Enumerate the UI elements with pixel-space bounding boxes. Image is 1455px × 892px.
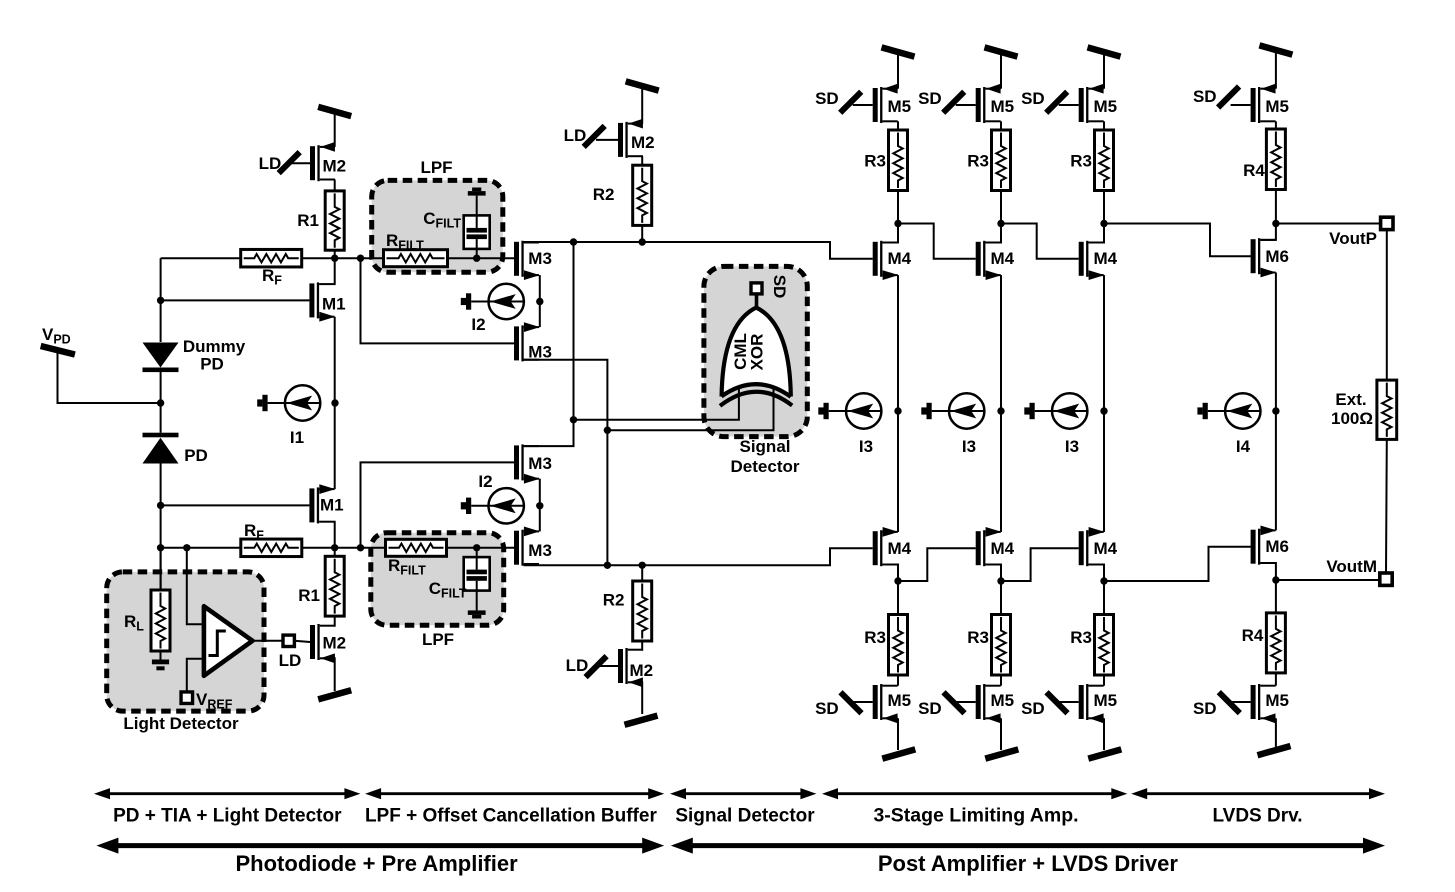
transistor M2 (top middle): [618, 119, 643, 158]
supply stub (bottom LPF): [468, 610, 486, 618]
transistor M5 top (stage 1): [873, 84, 898, 123]
resistor Ext 100 ohm: [1377, 380, 1397, 439]
wire ext load top: [1386, 230, 1388, 381]
wire SD to M5b gate (stage 1): [854, 701, 873, 703]
svg-text:LD: LD: [279, 651, 302, 670]
terminal LD square: [283, 635, 294, 646]
wire LD to M2m gate: [596, 139, 618, 141]
node B R1b junction: [331, 544, 338, 551]
current source I3 (stage 1): [818, 393, 882, 428]
node top bus X junction: [570, 238, 577, 245]
terminal V_REF square: [181, 692, 193, 704]
svg-text:M3: M3: [528, 343, 552, 362]
supply rail top (stage 1): [882, 47, 915, 56]
current source I2 (bottom): [461, 488, 525, 523]
annotation arrow PD+TIA: [94, 788, 360, 799]
wire node B to M3 upper gate: [361, 462, 515, 547]
transistor M5 top (LVDS): [1251, 84, 1276, 123]
wire RF bottom right: [302, 547, 335, 549]
node C_FILT top junction: [473, 255, 480, 262]
wire LD to M2 gate: [291, 162, 310, 164]
node output bottom (stage 3): [1100, 577, 1107, 584]
wire C_FILT to node: [476, 249, 478, 258]
terminal SD slash top (LVDS): [1218, 87, 1239, 108]
svg-text:SD: SD: [815, 699, 839, 718]
svg-text:M5: M5: [991, 691, 1015, 710]
wire left input bus: [160, 258, 162, 342]
supply rail (bottom middle): [625, 716, 658, 725]
node bus-M1b-gate junction: [157, 502, 164, 509]
current source I2 (top): [461, 284, 525, 319]
supply rail top (stage 2): [985, 47, 1018, 56]
capacitor C_FILT (top): [464, 215, 490, 249]
Light Detector block: [107, 572, 264, 711]
wire R2 to top bus: [641, 225, 643, 242]
node bus-RFb junction: [157, 544, 164, 551]
transistor M3 (bottom pair lower): [514, 527, 540, 566]
supply rail bottom (stage 2): [985, 749, 1018, 758]
wire node to M4 drain (stage 2): [985, 224, 1001, 243]
node I3 junction (stage 2): [997, 407, 1004, 414]
wire node to R4b: [1275, 580, 1277, 613]
svg-text:M2: M2: [323, 634, 347, 653]
transistor M5 bottom (stage 1): [873, 684, 898, 723]
wire R3 to node (stage 2): [1000, 191, 1002, 224]
svg-text:3-Stage Limiting Amp.: 3-Stage Limiting Amp.: [873, 805, 1078, 827]
svg-text:R2: R2: [603, 591, 625, 610]
wire R1b to M2b drain: [333, 616, 335, 626]
svg-text:PD: PD: [184, 446, 208, 465]
svg-text:LVDS Drv.: LVDS Drv.: [1212, 806, 1302, 827]
wire M6b drain to node VoutM: [1260, 563, 1276, 580]
wire R3 to node (stage 1): [897, 191, 899, 224]
wire RF top right: [302, 257, 335, 259]
node V_PD junction: [157, 399, 164, 406]
transistor M2 (top left): [310, 142, 335, 181]
wire M4b drain to node (stage 2): [985, 565, 1001, 582]
wire buffer out- to XOR right input: [607, 387, 773, 430]
terminal SD slash bottom (stage 2): [944, 692, 965, 713]
svg-text:M4: M4: [888, 539, 912, 558]
wire M2 drain to R1: [334, 180, 336, 191]
wire R4 to node VoutP: [1275, 190, 1277, 224]
transistor M4 top (stage 1): [873, 241, 899, 280]
svg-text:I4: I4: [1236, 437, 1251, 456]
node XOR left junction: [570, 416, 577, 423]
wire M5 to R3 (stage 1): [897, 121, 899, 130]
wire LD to M2b gate: [294, 641, 310, 642]
transistor M4 bottom (stage 1): [873, 527, 899, 566]
current source I1: [257, 385, 321, 420]
capacitor C_FILT (bottom): [464, 557, 490, 591]
terminal V_PD: [41, 346, 75, 355]
svg-text:LD: LD: [564, 126, 587, 145]
resistor R2 (bottom): [633, 581, 652, 641]
op-amp comparator (light detector): [204, 606, 253, 676]
wire M5b source to rail (stage 2): [1000, 718, 1002, 750]
terminal SD slash bottom (stage 3): [1047, 692, 1068, 713]
transistor M6 (bottom): [1251, 526, 1277, 565]
resistor R3 bottom (stage 1): [889, 615, 908, 676]
svg-text:PD: PD: [200, 355, 224, 374]
svg-text:SD: SD: [1021, 699, 1045, 718]
supply rail bottom (stage 1): [882, 749, 915, 758]
svg-text:R3: R3: [864, 628, 886, 647]
wire stage2 to stage3 gate (top): [1001, 224, 1079, 259]
wire M1 top gate: [161, 299, 310, 301]
node VoutP junction: [1272, 220, 1279, 227]
wire comparator output to LD: [253, 640, 284, 642]
node bus-RF-top junction: [157, 297, 164, 304]
node C_FILT bottom junction: [473, 544, 480, 551]
svg-text:M5: M5: [888, 691, 912, 710]
svg-text:R3: R3: [967, 152, 989, 171]
wire top bus to first M4 gate: [524, 242, 873, 259]
diode Dummy PD: [143, 343, 179, 373]
supply stub (top LPF): [468, 188, 486, 196]
wire RF top left: [161, 257, 241, 259]
wire node B to R1b: [334, 548, 336, 557]
wire R1 to node A: [334, 250, 336, 258]
transistor M4 bottom (stage 3): [1079, 527, 1105, 566]
wire node to R3b (stage 2): [1000, 581, 1002, 615]
wire node to M4 drain (stage 3): [1088, 224, 1104, 243]
LPF block (bottom): [371, 533, 504, 626]
wire M4b drain to node (stage 3): [1088, 565, 1104, 582]
transistor M4 top (stage 2): [976, 241, 1002, 280]
svg-text:M5: M5: [1265, 97, 1289, 116]
supply rail bottom (LVDS): [1258, 746, 1291, 755]
node I1 junction: [331, 399, 338, 406]
wire XOR output to SD terminal: [755, 294, 759, 308]
svg-text:SD: SD: [918, 89, 942, 108]
resistor R4 (top): [1266, 129, 1285, 190]
node I2 top junction: [536, 298, 543, 305]
svg-text:Detector: Detector: [731, 457, 800, 476]
node VoutM junction: [1272, 576, 1279, 583]
terminal SD slash top (stage 1): [840, 92, 861, 113]
wire node to R3b (stage 3): [1103, 581, 1105, 615]
wire V_PD to bus: [58, 352, 161, 403]
node bottom bus R2b junction: [639, 562, 646, 569]
wire stage2 to stage3 gate (bottom): [1001, 548, 1079, 581]
svg-text:M2: M2: [630, 661, 654, 680]
wire SD to M5b gate (stage 2): [957, 701, 976, 703]
wire VoutM: [1276, 579, 1381, 581]
terminal SD square: [751, 283, 762, 294]
resistor R1 (top): [325, 191, 344, 250]
wire M6 source to I4: [1275, 273, 1277, 412]
svg-text:M4: M4: [1094, 249, 1118, 268]
transistor M3 (top pair upper): [514, 241, 540, 280]
wire node to C_FILTb: [476, 548, 478, 557]
resistor R3 bottom (stage 2): [992, 615, 1011, 676]
wire stub to C_FILT: [476, 196, 478, 216]
wire C_FILTb to stub: [476, 591, 478, 611]
terminal SD slash bottom (LVDS): [1219, 692, 1240, 713]
label CML XOR: [731, 333, 767, 370]
svg-text:I2: I2: [478, 472, 492, 491]
Signal Detector block: [704, 266, 807, 436]
wire R3b to M5b (stage 2): [1000, 675, 1002, 686]
gate CML XOR: [720, 308, 792, 406]
wire stage1 to stage2 gate (bottom): [898, 548, 976, 581]
svg-text:M6: M6: [1265, 247, 1289, 266]
svg-text:M4: M4: [991, 249, 1015, 268]
resistor R3 bottom (stage 3): [1095, 615, 1114, 676]
wire I2 to M3l source: [539, 302, 541, 328]
wire M5 to R4 (LVDS): [1275, 121, 1277, 129]
wire M2m drain to R2: [641, 156, 643, 165]
svg-text:M3: M3: [528, 249, 552, 268]
wire node A to LPF: [335, 257, 384, 259]
resistor R3 top (stage 3): [1095, 130, 1114, 191]
wire M4 source to I3 (stage 2): [1000, 275, 1002, 411]
svg-text:I3: I3: [962, 437, 976, 456]
svg-text:I2: I2: [471, 315, 485, 334]
svg-text:I1: I1: [290, 428, 304, 447]
transistor M3 (bottom pair upper): [514, 444, 540, 483]
wire left bus mid: [160, 372, 162, 433]
wire M3u2 source to I2b: [539, 479, 541, 506]
wire SD to M5 gate (stage 3): [1059, 104, 1079, 106]
wire M4b drain to node (stage 1): [882, 565, 898, 582]
node I3 junction (stage 1): [894, 407, 901, 414]
terminal LD slash (top left): [279, 152, 300, 173]
wire LD to M2bm gate: [598, 665, 618, 667]
svg-text:SD: SD: [815, 89, 839, 108]
terminal LD slash (bottom middle): [586, 656, 607, 677]
svg-text:M6: M6: [1265, 537, 1289, 556]
svg-text:LPF: LPF: [420, 158, 452, 177]
wire M4 source to I3 (stage 3): [1103, 275, 1105, 411]
wire rail to M5 source (stage 3): [1103, 55, 1105, 89]
current source I4: [1197, 393, 1261, 428]
svg-text:M5: M5: [1265, 691, 1289, 710]
supply rail bottom (stage 3): [1088, 749, 1121, 758]
wire M5 to R3 (stage 3): [1103, 121, 1105, 130]
wire M4 source to I3 (stage 1): [897, 275, 899, 411]
wire rail to M5 source (stage 1): [897, 55, 899, 89]
wire VoutP: [1276, 223, 1381, 225]
wire SD to M5 gate (stage 1): [853, 104, 873, 106]
wire M2b source to rail: [333, 658, 335, 691]
supply rail (top middle): [626, 81, 659, 90]
wire M1 source to I1 node: [334, 317, 336, 403]
svg-text:R1: R1: [297, 211, 319, 230]
wire R3b to M5b (stage 1): [897, 675, 899, 686]
annotation arrow LPF+Offset: [365, 788, 664, 799]
svg-text:LPF + Offset Cancellation Buff: LPF + Offset Cancellation Buffer: [365, 806, 658, 827]
node top bus R2 junction: [639, 238, 646, 245]
transistor M5 bottom (stage 3): [1079, 684, 1104, 723]
svg-text:Post Amplifier + LVDS Driver: Post Amplifier + LVDS Driver: [878, 851, 1179, 876]
node A cross junction: [357, 255, 364, 262]
svg-text:SD: SD: [770, 275, 789, 299]
wire M3l drain down to bottom bus: [523, 360, 607, 566]
wire I3 to M4b source (stage 1): [897, 411, 899, 532]
svg-text:XOR: XOR: [748, 334, 767, 371]
wire I2b to M3l2 source: [539, 506, 541, 532]
resistor R_FILT (top): [384, 250, 448, 267]
wire RF bottom left: [161, 547, 242, 549]
wire bottom bus to first M4b gate: [524, 548, 873, 565]
svg-text:SD: SD: [918, 699, 942, 718]
wire I3 to M4b source (stage 2): [1000, 411, 1002, 532]
svg-text:I3: I3: [859, 437, 873, 456]
wire bus to R_L: [160, 548, 162, 590]
wire bottom bus to R2b: [641, 565, 643, 581]
node B cross junction: [357, 544, 364, 551]
transistor M1 (top): [309, 282, 335, 321]
svg-text:M2: M2: [323, 157, 347, 176]
annotation arrow PostAmp+LVDS: [671, 838, 1385, 854]
wire R2b to M2bm drain: [641, 641, 643, 650]
current source I3 (stage 2): [921, 393, 985, 428]
wire M1 bottom gate: [161, 504, 310, 506]
resistor R1 (bottom): [325, 556, 344, 616]
svg-text:M5: M5: [991, 97, 1015, 116]
wire R4b to M5b (LVDS): [1275, 673, 1277, 686]
wire node to M4 drain (stage 1): [882, 224, 898, 243]
wire rail to M2m source: [641, 89, 643, 124]
node output top (stage 1): [894, 220, 901, 227]
wire left bus low: [160, 464, 162, 591]
svg-text:Dummy: Dummy: [183, 337, 246, 356]
svg-text:SD: SD: [1193, 87, 1217, 106]
supply rail top (stage 3): [1088, 47, 1121, 56]
transistor M2 (bottom middle): [618, 648, 643, 687]
svg-text:R1: R1: [298, 586, 320, 605]
wire M5b source to rail (stage 3): [1103, 718, 1105, 750]
resistor R_F (top): [241, 249, 302, 267]
wire stage3 to M6 gate (top): [1104, 224, 1251, 257]
transistor M4 bottom (stage 2): [976, 527, 1002, 566]
svg-text:M3: M3: [528, 454, 552, 473]
svg-text:M4: M4: [991, 539, 1015, 558]
wire SD to M5b gate (stage 3): [1060, 701, 1079, 703]
wire V_REF to comparator: [187, 659, 204, 698]
svg-text:VoutP: VoutP: [1329, 229, 1377, 248]
wire rail to M5 source (stage 2): [1000, 55, 1002, 89]
svg-text:M5: M5: [888, 97, 912, 116]
svg-text:PD + TIA + Light Detector: PD + TIA + Light Detector: [113, 806, 342, 827]
svg-text:R4: R4: [1243, 161, 1265, 180]
wire stage1 to stage2 gate (top): [898, 224, 976, 259]
wire node A to M3 lower gate: [361, 258, 515, 343]
resistor R2 (top): [633, 165, 652, 225]
svg-text:Signal Detector: Signal Detector: [675, 806, 815, 827]
svg-text:SD: SD: [1021, 89, 1045, 108]
svg-text:R3: R3: [967, 628, 989, 647]
transistor M5 top (stage 3): [1079, 84, 1104, 123]
annotation arrow LVDS Drv: [1131, 788, 1385, 799]
node bottom bus X junction: [604, 562, 611, 569]
LPF block (top): [372, 180, 503, 272]
wire SD to M5b gate (LVDS): [1232, 701, 1251, 703]
node I4 junction: [1272, 407, 1279, 414]
svg-text:M2: M2: [631, 133, 655, 152]
wire node B to comparator input: [187, 548, 204, 625]
wire ext load bottom: [1385, 439, 1388, 573]
node output top (stage 2): [997, 220, 1004, 227]
svg-text:R3: R3: [1070, 152, 1092, 171]
svg-text:M4: M4: [888, 249, 912, 268]
svg-text:Light Detector: Light Detector: [123, 714, 239, 733]
wire node to R3b (stage 1): [897, 581, 899, 615]
wire I1 node to M1b source: [334, 403, 336, 489]
node I2 bottom junction: [536, 502, 543, 509]
wire stage3 to M6 gate (bottom): [1104, 547, 1251, 581]
wire M5b source to rail (stage 1): [897, 718, 899, 750]
resistor R_FILT (bottom): [386, 539, 447, 556]
node A R1 junction: [331, 255, 338, 262]
wire node to M6 drain: [1260, 224, 1276, 240]
svg-text:M5: M5: [1094, 97, 1118, 116]
svg-text:Ext.: Ext.: [1335, 390, 1366, 409]
transistor M1 (bottom): [309, 484, 335, 523]
terminal SD slash top (stage 3): [1046, 92, 1067, 113]
svg-text:Signal: Signal: [739, 437, 790, 456]
svg-text:M1: M1: [322, 295, 346, 314]
transistor M2 (bottom left): [310, 624, 335, 663]
svg-text:M5: M5: [1094, 691, 1118, 710]
wire node A to M1 drain: [333, 258, 335, 284]
node output bottom (stage 2): [997, 577, 1004, 584]
transistor M4 top (stage 3): [1079, 241, 1105, 280]
svg-text:M1: M1: [320, 496, 344, 515]
annotation arrow Signal Detector: [670, 788, 816, 799]
supply rail top (LVDS): [1259, 45, 1292, 54]
wire rail to M5 source (LVDS): [1275, 53, 1277, 89]
terminal SD slash bottom (stage 1): [841, 692, 862, 713]
wire M3u source to I2: [539, 275, 541, 301]
resistor R3 top (stage 1): [889, 130, 908, 191]
wire R_FILT out to M3 gate: [448, 257, 515, 259]
wire buffer out+ to XOR left input: [574, 386, 739, 420]
wire R3b to M5b (stage 3): [1103, 675, 1105, 686]
svg-text:R4: R4: [1242, 626, 1264, 645]
svg-text:R3: R3: [1070, 628, 1092, 647]
annotation arrow Photodiode+PreAmp: [96, 838, 664, 854]
terminal SD slash top (stage 2): [943, 92, 964, 113]
transistor M5 bottom (LVDS): [1251, 684, 1276, 723]
supply rail (bottom left): [318, 690, 351, 699]
svg-text:LD: LD: [259, 154, 282, 173]
svg-text:M4: M4: [1094, 539, 1118, 558]
svg-text:SD: SD: [1193, 699, 1217, 718]
svg-text:I3: I3: [1065, 437, 1079, 456]
svg-text:100Ω: 100Ω: [1331, 409, 1373, 428]
ground (below R_L): [152, 651, 169, 670]
wire M3u2 drain up to top bus: [523, 242, 573, 446]
wire SD to M5 gate (stage 2): [956, 104, 976, 106]
wire I3 to M4b source (stage 3): [1103, 411, 1105, 532]
node XOR right junction: [604, 427, 611, 434]
wire R3 to node (stage 3): [1103, 191, 1105, 224]
svg-text:VoutM: VoutM: [1326, 557, 1377, 576]
annotation arrow 3-Stage: [822, 788, 1127, 799]
wire R_FILTb out to M3 gate: [447, 547, 515, 549]
transistor M5 bottom (stage 2): [976, 684, 1001, 723]
resistor R4 (bottom): [1266, 613, 1285, 673]
svg-text:M3: M3: [528, 541, 552, 560]
resistor R_F (bottom): [241, 539, 302, 557]
svg-text:LPF: LPF: [422, 630, 454, 649]
wire M1b drain to node B: [333, 522, 335, 548]
wire M5 to R3 (stage 2): [1000, 121, 1002, 130]
svg-text:R2: R2: [593, 185, 615, 204]
